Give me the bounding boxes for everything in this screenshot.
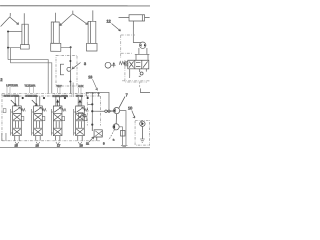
svg-text:TILT: TILT xyxy=(56,84,62,88)
svg-text:13: 13 xyxy=(88,75,92,79)
svg-text:a: a xyxy=(113,138,115,142)
valve V3 xyxy=(51,96,66,144)
relief valve RV xyxy=(89,125,102,142)
tank marks bottom left of motor unit xyxy=(120,131,125,137)
wire text leader ticks xyxy=(7,87,81,93)
wire tank return corner xyxy=(141,88,150,92)
node junction dots in check box xyxy=(69,60,71,83)
svg-text:RAISE LOWER: RAISE LOWER xyxy=(52,95,68,98)
valve V2 xyxy=(32,96,47,144)
svg-text:11: 11 xyxy=(86,142,89,146)
valve V1 xyxy=(11,96,26,144)
svg-text:3: 3 xyxy=(84,62,86,66)
node port circle left xyxy=(83,115,86,118)
wire pump case lines xyxy=(119,111,127,147)
label 9 leader arrow xyxy=(72,62,80,68)
svg-text:17: 17 xyxy=(57,143,61,147)
node detent box xyxy=(125,62,128,66)
node coupler circles xyxy=(105,110,107,112)
cylinder C3 xyxy=(87,10,98,51)
pump P2 xyxy=(113,114,119,130)
pump P1 xyxy=(110,97,125,114)
label 7 leader tick xyxy=(9,13,11,17)
node mast arm center (caret) xyxy=(60,14,88,26)
wire dash-dot pilot drop xyxy=(139,82,141,89)
lever knob circle xyxy=(105,62,111,68)
node junction dots on bus xyxy=(7,30,9,48)
cylinder C2 xyxy=(51,13,61,52)
label 13 leader xyxy=(92,79,97,90)
check valve circle port xyxy=(139,72,143,76)
wire bus from cylinder C1 xyxy=(8,31,52,93)
wire cylinder C2 port to check valve xyxy=(61,46,71,48)
node mast arm left (caret) xyxy=(1,17,19,27)
svg-text:15: 15 xyxy=(14,143,18,147)
svg-text:10: 10 xyxy=(128,106,132,110)
svg-text:RAISE LOWER: RAISE LOWER xyxy=(4,95,20,98)
pilot check valve xyxy=(60,56,70,86)
svg-text:9: 9 xyxy=(103,142,105,146)
wire section divider pair xyxy=(72,82,74,97)
wire valve V5 tank drops xyxy=(130,69,147,78)
svg-text:AUX: AUX xyxy=(78,84,84,88)
wire riser in right sub-box xyxy=(86,92,113,125)
valve V5 lever-operated 3-position xyxy=(128,60,149,69)
node junction dots riser xyxy=(91,103,93,126)
wire bottom boundary line xyxy=(0,147,150,149)
wire check box to bank xyxy=(69,86,71,93)
node junction dots on supply rail xyxy=(22,97,89,99)
node left end spring marks xyxy=(2,133,6,141)
wire pilot drop (dashed) xyxy=(69,47,71,56)
wire dashed drain diagonal xyxy=(109,130,115,140)
check valve assembly dash-dot box xyxy=(56,55,77,86)
svg-text:LIFT/LWR: LIFT/LWR xyxy=(6,83,18,87)
node dash-dot enclosure right unit xyxy=(121,35,147,82)
tank T1 top right xyxy=(119,15,150,43)
svg-text:TLT/LWR: TLT/LWR xyxy=(24,83,35,87)
motor M1 loop xyxy=(133,42,149,60)
label 5 leader tick xyxy=(72,11,74,14)
node dash-dot enclosure motor unit bottom right xyxy=(135,120,150,145)
node V1 left cap xyxy=(3,109,6,113)
lever link xyxy=(111,63,116,68)
cylinder C1 xyxy=(20,13,29,49)
check valve by V4 xyxy=(78,113,83,120)
svg-text:2: 2 xyxy=(0,78,2,82)
svg-text:16: 16 xyxy=(35,143,39,147)
svg-text:7: 7 xyxy=(126,93,128,97)
motor M2 xyxy=(140,121,145,143)
label 12 leader arrow xyxy=(112,24,121,32)
valve V4 xyxy=(74,96,89,144)
label 10 leader arrow xyxy=(132,111,135,119)
label bottom numerals xyxy=(14,141,105,147)
spring on valve V5 xyxy=(119,61,124,65)
svg-text:12: 12 xyxy=(107,20,111,24)
node valve bank dash-dot enclosure xyxy=(2,94,101,141)
wire top boundary line xyxy=(0,5,150,7)
node junction dot xyxy=(70,46,72,48)
svg-text:18: 18 xyxy=(79,144,83,148)
wire dash-dot pilot line right xyxy=(122,80,150,82)
